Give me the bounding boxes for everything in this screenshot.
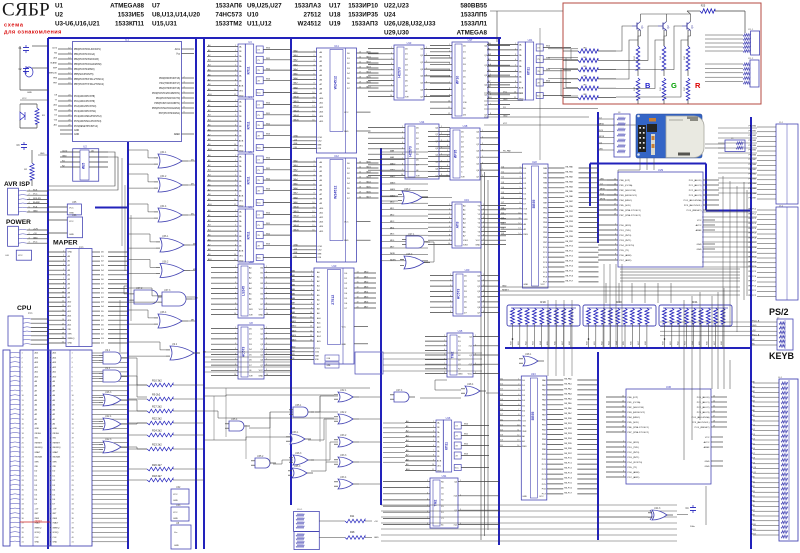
svg-text:ВВ55: ВВ55 — [532, 200, 536, 209]
svg-text:1: 1 — [589, 326, 590, 328]
svg-text:+5V: +5V — [374, 521, 378, 523]
svg-text:2: 2 — [433, 426, 434, 428]
svg-text:PC4(ADC4/SDA/PCINT12): PC4(ADC4/SDA/PCINT12) — [74, 115, 102, 118]
svg-text:K63: K63 — [533, 341, 535, 344]
svg-text:1533ЛА3: 1533ЛА3 — [295, 2, 322, 9]
svg-text:/OE: /OE — [249, 314, 253, 316]
svg-text:PB4(PCINT4/MISO): PB4(PCINT4/MISO) — [74, 69, 95, 71]
svg-text:GND: GND — [68, 252, 73, 254]
svg-text:PD4(PCINT20/XCK/T0): PD4(PCINT20/XCK/T0) — [156, 98, 180, 100]
svg-text:K68: K68 — [645, 341, 647, 344]
svg-text:ИР35: ИР35 — [454, 150, 458, 159]
svg-text:1: 1 — [450, 274, 451, 276]
svg-text:PB_PC5: PB_PC5 — [748, 271, 757, 273]
svg-text:5: 5 — [441, 154, 442, 156]
svg-text:U34.1: U34.1 — [160, 151, 167, 154]
svg-text:27512: 27512 — [331, 295, 335, 305]
svg-text:/WR: /WR — [522, 431, 527, 433]
svg-text:20: 20 — [359, 87, 361, 89]
svg-text:MA12: MA12 — [294, 105, 300, 108]
svg-text:16: 16 — [357, 287, 359, 289]
svg-text:10: 10 — [310, 312, 312, 314]
svg-text:24: 24 — [713, 401, 715, 403]
svg-text:КП11: КП11 — [445, 442, 449, 450]
svg-text:7: 7 — [447, 160, 448, 162]
svg-text:K67: K67 — [562, 341, 564, 344]
svg-text:1: 1 — [449, 44, 450, 46]
svg-text:9: 9 — [623, 476, 624, 478]
svg-text:2: 2 — [266, 332, 267, 334]
svg-text:1: 1 — [665, 326, 666, 328]
svg-text:16: 16 — [359, 177, 361, 179]
svg-text:11: 11 — [313, 97, 315, 99]
svg-text:PS/2: PS/2 — [769, 307, 789, 317]
svg-text:PB_PA2: PB_PA2 — [749, 173, 757, 176]
svg-text:PC5(ADC5/SCL/PCINT13): PC5(ADC5/SCL/PCINT13) — [74, 120, 102, 123]
svg-text:3: 3 — [266, 338, 267, 340]
svg-text:U13: U13 — [407, 41, 412, 45]
svg-text:PA_PB1: PA_PB1 — [564, 422, 572, 425]
svg-text:5: 5 — [402, 148, 403, 150]
svg-text:/RD: /RD — [68, 329, 72, 331]
svg-text:PA_PC5: PA_PC5 — [564, 481, 572, 484]
svg-text:4: 4 — [519, 182, 520, 184]
svg-text:1533ЛЛ1: 1533ЛЛ1 — [461, 21, 488, 28]
svg-text:MA15: MA15 — [294, 119, 300, 122]
svg-text:MA15: MA15 — [291, 339, 297, 342]
svg-text:PB_PC4: PB_PC4 — [748, 228, 757, 230]
svg-text:U27.1: U27.1 — [408, 233, 415, 236]
svg-text:/MREQ: /MREQ — [68, 338, 75, 340]
svg-text:GND: GND — [53, 428, 58, 430]
svg-text:VCC: VCC — [257, 203, 262, 205]
svg-text:2: 2 — [444, 340, 445, 342]
svg-text:29: 29 — [713, 426, 715, 428]
svg-text:74HC573: 74HC573 — [215, 12, 242, 19]
svg-text:100u: 100u — [690, 526, 696, 528]
svg-text:PA_PB7: PA_PB7 — [564, 452, 572, 455]
svg-text:PB3(PCINT3/OC2A/MOSI): PB3(PCINT3/OC2A/MOSI) — [74, 63, 102, 66]
svg-text:3: 3 — [450, 285, 451, 287]
svg-text:4: 4 — [447, 145, 448, 147]
svg-text:GND: GND — [53, 542, 58, 544]
svg-text:10: 10 — [390, 95, 392, 97]
svg-text:PD0_(RXD): PD0_(RXD) — [628, 442, 640, 444]
svg-text:9: 9 — [313, 87, 314, 89]
svg-text:КП11: КП11 — [247, 176, 251, 184]
svg-text:PC3_(ADC3): PC3_(ADC3) — [689, 194, 702, 197]
svg-text:K63: K63 — [609, 341, 611, 344]
svg-text:PA_PA3: PA_PA3 — [566, 180, 574, 183]
svg-text:9: 9 — [615, 259, 616, 261]
svg-text:PD5_(T1): PD5_(T1) — [628, 467, 638, 469]
svg-text:1533АП3: 1533АП3 — [351, 21, 378, 28]
svg-text:U33.2: U33.2 — [340, 434, 347, 437]
svg-text:GND: GND — [752, 325, 757, 327]
svg-text:MA11: MA11 — [294, 210, 300, 213]
svg-text:11: 11 — [234, 149, 236, 151]
svg-text:GND: GND — [341, 344, 346, 346]
svg-text:MA13: MA13 — [294, 109, 300, 112]
svg-text:U18: U18 — [463, 124, 468, 128]
svg-text:7: 7 — [483, 306, 484, 308]
svg-text:PB0_(ICP): PB0_(ICP) — [620, 180, 631, 182]
svg-text:PB7_(XTAL2/TOSC2): PB7_(XTAL2/TOSC2) — [620, 214, 641, 217]
svg-text:НС573: НС573 — [398, 67, 402, 78]
svg-text:1: 1 — [519, 167, 520, 169]
svg-text:10: 10 — [234, 313, 236, 315]
svg-text:11: 11 — [514, 97, 516, 99]
svg-text:4: 4 — [391, 63, 392, 65]
svg-text:15: 15 — [312, 225, 314, 227]
svg-text:9: 9 — [402, 169, 403, 171]
svg-text:1: 1 — [518, 379, 519, 381]
svg-text:PC4_(ADC4/SDA): PC4_(ADC4/SDA) — [684, 199, 702, 202]
svg-text:PA_PB3: PA_PB3 — [564, 432, 572, 435]
svg-text:Q3: Q3 — [690, 25, 694, 29]
svg-text:VCC: VCC — [539, 496, 544, 498]
svg-text:7: 7 — [557, 326, 558, 328]
svg-text:PB_PC1: PB_PC1 — [748, 252, 757, 254]
svg-text:PA_PC4: PA_PC4 — [564, 477, 572, 480]
svg-text:9: 9 — [483, 239, 484, 241]
svg-text:11: 11 — [310, 317, 312, 319]
svg-text:4: 4 — [449, 217, 450, 219]
svg-text:9: 9 — [266, 369, 267, 371]
svg-text:12: 12 — [312, 211, 314, 213]
svg-text:4: 4 — [623, 451, 624, 453]
svg-text:MOSI: MOSI — [600, 199, 606, 201]
svg-text:1: 1 — [513, 326, 514, 328]
svg-text:3: 3 — [313, 170, 314, 172]
svg-text:AREF: AREF — [696, 229, 702, 232]
svg-text:K60: K60 — [663, 341, 665, 344]
svg-text:14: 14 — [517, 445, 519, 447]
svg-text:GND: GND — [291, 347, 296, 349]
svg-text:PA_PC3: PA_PC3 — [564, 472, 572, 475]
svg-text:/WR: /WR — [68, 334, 73, 336]
svg-text:PB5(SCK/PCINT5): PB5(SCK/PCINT5) — [74, 74, 94, 76]
svg-text:VCC: VCC — [18, 255, 23, 257]
svg-text:9: 9 — [311, 307, 312, 309]
svg-text:2: 2 — [449, 51, 450, 53]
svg-text:3: 3 — [518, 389, 519, 391]
svg-text:8: 8 — [266, 364, 267, 366]
svg-text:PB2_(SS/OC1B): PB2_(SS/OC1B) — [628, 407, 645, 409]
svg-text:GND: GND — [697, 244, 702, 246]
svg-text:U17: U17 — [468, 38, 473, 42]
svg-text:VCC: VCC — [257, 258, 262, 260]
svg-text:PA_PA0: PA_PA0 — [564, 378, 572, 381]
svg-text:1: 1 — [235, 45, 236, 47]
svg-text:10: 10 — [518, 212, 520, 214]
svg-text:U27.4: U27.4 — [396, 389, 403, 392]
svg-text:7: 7 — [235, 298, 236, 300]
svg-text:2: 2 — [441, 133, 442, 135]
svg-text:13: 13 — [359, 162, 361, 164]
svg-text:/WE: /WE — [315, 355, 320, 357]
svg-text:3: 3 — [679, 326, 680, 328]
svg-text:PB4_(MISO): PB4_(MISO) — [628, 417, 641, 419]
svg-text:PB_PA3: PB_PA3 — [749, 177, 757, 180]
svg-text:1: 1 — [235, 100, 236, 102]
svg-text:6: 6 — [615, 244, 616, 246]
svg-text:7: 7 — [433, 450, 434, 452]
svg-text:9: 9 — [235, 194, 236, 196]
svg-text:4: 4 — [266, 282, 267, 284]
svg-text:U33.3: U33.3 — [340, 454, 347, 457]
svg-text:1: 1 — [444, 335, 445, 337]
svg-text:3: 3 — [527, 326, 528, 328]
svg-text:3: 3 — [433, 431, 434, 433]
svg-text:3: 3 — [519, 177, 520, 179]
svg-text:2: 2 — [235, 271, 236, 273]
svg-text:/OE: /OE — [461, 176, 465, 178]
svg-text:13: 13 — [359, 52, 361, 54]
svg-text:PB_PC7: PB_PC7 — [748, 281, 757, 283]
svg-text:26: 26 — [713, 411, 715, 413]
svg-text:PD3(PCINT19/OC2B/INT1): PD3(PCINT19/OC2B/INT1) — [152, 93, 180, 95]
svg-text:PD6_(AIN0): PD6_(AIN0) — [628, 471, 640, 474]
svg-text:U11,U12: U11,U12 — [247, 21, 272, 28]
svg-text:8: 8 — [313, 83, 314, 85]
svg-text:2: 2 — [235, 332, 236, 334]
svg-text:MA15: MA15 — [294, 229, 300, 232]
svg-text:9: 9 — [313, 197, 314, 199]
svg-text:MA10: MA10 — [291, 316, 297, 319]
svg-text:U30: U30 — [666, 385, 672, 389]
svg-text:25: 25 — [713, 406, 715, 408]
svg-text:U32.1: U32.1 — [340, 389, 347, 392]
svg-text:7: 7 — [482, 169, 483, 171]
svg-text:2: 2 — [519, 172, 520, 174]
svg-text:PB1_(OC1A): PB1_(OC1A) — [628, 401, 641, 404]
svg-text:U28.4: U28.4 — [467, 383, 474, 386]
svg-text:5: 5 — [426, 75, 427, 77]
svg-text:J11.1: J11.1 — [748, 29, 754, 31]
svg-text:/WE: /WE — [327, 365, 332, 367]
svg-text:6: 6 — [450, 301, 451, 303]
svg-text:/WR: /WR — [35, 461, 40, 463]
svg-text:6: 6 — [490, 94, 491, 96]
svg-text:U11: U11 — [334, 44, 339, 48]
svg-text:PC2_(ADC2): PC2_(ADC2) — [697, 406, 710, 409]
svg-text:8: 8 — [716, 326, 717, 328]
svg-text:12: 12 — [517, 435, 519, 437]
svg-text:ATMEGA8: ATMEGA8 — [457, 30, 488, 37]
svg-text:R11: R11 — [350, 515, 355, 518]
svg-text:5: 5 — [313, 179, 314, 181]
svg-text:VCC: VCC — [537, 96, 542, 98]
svg-text:1: 1 — [515, 43, 516, 45]
svg-text:/RD: /RD — [522, 426, 526, 428]
svg-text:PC0(ADC0/PCINT8): PC0(ADC0/PCINT8) — [74, 95, 95, 98]
svg-text:/WE: /WE — [294, 252, 298, 254]
svg-text:VCC: VCC — [22, 98, 27, 100]
svg-text:U17: U17 — [329, 2, 341, 9]
svg-text:PA_PC6: PA_PC6 — [566, 274, 574, 277]
svg-text:J11.2: J11.2 — [748, 58, 754, 60]
svg-text:U1: U1 — [125, 38, 129, 42]
svg-text:13: 13 — [357, 272, 359, 274]
svg-text:GND: GND — [344, 131, 349, 133]
svg-text:1: 1 — [482, 130, 483, 132]
svg-text:U15,U31: U15,U31 — [152, 21, 177, 28]
svg-text:7: 7 — [402, 158, 403, 160]
svg-text:9: 9 — [444, 372, 445, 374]
svg-text:2: 2 — [672, 326, 673, 328]
svg-text:U19: U19 — [464, 198, 469, 202]
svg-text:PA_PA4: PA_PA4 — [566, 185, 574, 188]
svg-text:/RESET: /RESET — [35, 520, 43, 522]
svg-text:BLANK: BLANK — [50, 62, 57, 65]
svg-text:U35.3: U35.3 — [294, 465, 301, 468]
svg-text:12: 12 — [310, 321, 312, 323]
svg-text:3: 3 — [266, 277, 267, 279]
svg-text:U18: U18 — [329, 12, 341, 19]
svg-text:5: 5 — [447, 150, 448, 152]
svg-text:7: 7 — [235, 184, 236, 186]
svg-text:PA_PB2: PA_PB2 — [566, 215, 574, 218]
svg-text:5: 5 — [391, 69, 392, 71]
svg-text:PD7(PCINT23/AIN1): PD7(PCINT23/AIN1) — [159, 112, 180, 115]
svg-text:4: 4 — [444, 349, 445, 351]
svg-text:PA_PB0: PA_PB0 — [564, 417, 572, 420]
svg-text:R27 2k2: R27 2k2 — [152, 405, 162, 409]
svg-text:PA_PC0: PA_PC0 — [566, 245, 574, 248]
svg-text:16: 16 — [310, 340, 312, 342]
svg-text:PD7_(AIN1): PD7_(AIN1) — [628, 476, 640, 479]
svg-text:3: 3 — [447, 140, 448, 142]
svg-text:5: 5 — [694, 326, 695, 328]
svg-text:28: 28 — [713, 421, 715, 423]
svg-text:R24 2k2: R24 2k2 — [152, 429, 162, 433]
svg-text:PB0(PCINT0/CLKO/ICP1): PB0(PCINT0/CLKO/ICP1) — [74, 49, 101, 51]
svg-text:13: 13 — [312, 106, 314, 108]
svg-text:ВВ55: ВВ55 — [531, 412, 535, 421]
svg-text:K67: K67 — [714, 341, 716, 344]
svg-text:6: 6 — [313, 74, 314, 76]
svg-text:PD2_(INT0): PD2_(INT0) — [628, 452, 640, 454]
svg-text:CLK0: CLK0 — [62, 151, 68, 153]
svg-text:3: 3 — [515, 54, 516, 56]
svg-text:PC6_(/RESET): PC6_(/RESET) — [687, 210, 702, 212]
svg-text:4: 4 — [235, 282, 236, 284]
svg-text:СЯБР: СЯБР — [2, 0, 50, 21]
svg-text:K60: K60 — [587, 341, 589, 344]
svg-text:PC1_(ADC1): PC1_(ADC1) — [689, 184, 702, 187]
svg-text:схема: схема — [4, 23, 24, 29]
svg-text:10: 10 — [448, 101, 450, 103]
svg-text:PB_PA1: PB_PA1 — [749, 168, 757, 171]
svg-text:7: 7 — [235, 129, 236, 131]
svg-text:3: 3 — [235, 110, 236, 112]
svg-text:U2: U2 — [83, 145, 87, 149]
svg-text:7: 7 — [235, 359, 236, 361]
svg-text:7: 7 — [490, 103, 491, 105]
svg-text:SCK: SCK — [599, 130, 604, 132]
svg-text:U9,U25,U27: U9,U25,U27 — [247, 2, 282, 9]
svg-text:/MREQ: /MREQ — [53, 527, 60, 529]
svg-text:1: 1 — [266, 266, 267, 268]
svg-text:5: 5 — [235, 348, 236, 350]
svg-text:AREF: AREF — [174, 133, 181, 136]
svg-text:6: 6 — [447, 155, 448, 157]
svg-text:PA_PA4: PA_PA4 — [564, 397, 572, 400]
svg-text:PA_PA1: PA_PA1 — [564, 382, 572, 385]
svg-text:U34.4: U34.4 — [160, 205, 167, 208]
svg-text:R21: R21 — [692, 300, 698, 304]
svg-text:PA_PB1: PA_PB1 — [566, 210, 574, 213]
svg-text:GND: GND — [475, 244, 480, 246]
svg-text:1: 1 — [447, 130, 448, 132]
svg-text:R25: R25 — [701, 5, 706, 8]
svg-text:U8,U13,U14,U20: U8,U13,U14,U20 — [152, 12, 200, 19]
svg-text:PB_PC2: PB_PC2 — [748, 218, 757, 220]
svg-text:GND: GND — [258, 375, 263, 377]
svg-text:U33.1: U33.1 — [292, 431, 299, 434]
svg-text:6: 6 — [402, 153, 403, 155]
svg-text:11: 11 — [517, 430, 519, 432]
svg-text:GND: GND — [74, 130, 79, 132]
svg-text:8: 8 — [313, 193, 314, 195]
svg-text:16: 16 — [359, 67, 361, 69]
svg-text:6: 6 — [515, 70, 516, 72]
svg-text:GND: GND — [344, 240, 349, 242]
svg-text:17: 17 — [614, 204, 616, 206]
svg-text:4: 4 — [402, 142, 403, 144]
svg-text:1: 1 — [433, 421, 434, 423]
svg-text:8: 8 — [235, 303, 236, 305]
svg-text:DIR: DIR — [249, 309, 253, 311]
svg-text:9: 9 — [433, 459, 434, 461]
svg-text:8: 8 — [235, 134, 236, 136]
svg-text:/CS: /CS — [522, 421, 526, 423]
svg-text:PA_PC3: PA_PC3 — [566, 260, 574, 263]
svg-text:1: 1 — [449, 204, 450, 206]
svg-text:U22.3: U22.3 — [105, 438, 112, 441]
svg-text:VCC: VCC — [259, 309, 264, 311]
svg-text:/WE: /WE — [291, 354, 295, 356]
svg-text:VCC: VCC — [69, 208, 74, 210]
svg-text:U35: U35 — [72, 201, 77, 204]
svg-text:/RFSH: /RFSH — [35, 433, 42, 435]
svg-text:PC1_(ADC1): PC1_(ADC1) — [697, 401, 710, 404]
svg-text:/RD: /RD — [524, 214, 528, 216]
svg-text:A1/B: A1/B — [239, 250, 244, 253]
svg-text:13: 13 — [312, 216, 314, 218]
svg-text:PB_PC1: PB_PC1 — [748, 290, 757, 292]
svg-text:U35.4: U35.4 — [231, 418, 238, 421]
svg-text:GND: GND — [239, 205, 244, 207]
svg-text:6: 6 — [701, 326, 702, 328]
svg-text:/BUSRQ: /BUSRQ — [53, 447, 61, 449]
svg-text:ТМ2: ТМ2 — [434, 500, 438, 507]
svg-text:J10.1: J10.1 — [297, 509, 303, 511]
svg-text:6: 6 — [449, 226, 450, 228]
svg-text:PC5_(ADC5/SCL): PC5_(ADC5/SCL) — [684, 204, 702, 207]
svg-text:PD2(INT0/PCINT18): PD2(INT0/PCINT18) — [159, 88, 180, 90]
svg-text:3: 3 — [483, 285, 484, 287]
svg-text:R10 3k2: R10 3k2 — [152, 379, 162, 383]
svg-text:U35.2: U35.2 — [257, 455, 264, 458]
svg-text:GND: GND — [68, 343, 73, 345]
svg-text:1: 1 — [391, 47, 392, 49]
svg-text:/WR: /WR — [524, 219, 529, 221]
svg-text:PD3_(INT1): PD3_(INT1) — [620, 240, 632, 242]
svg-text:U29: U29 — [658, 168, 664, 172]
svg-text:1: 1 — [460, 480, 461, 482]
